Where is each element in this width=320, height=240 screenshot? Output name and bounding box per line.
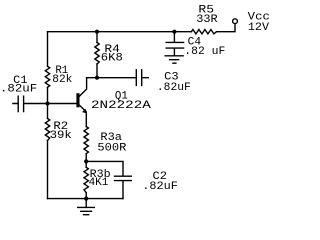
resistor R5: [191, 4, 218, 34]
wire bottom rail: [48, 198, 124, 200]
node C4 top: [172, 30, 176, 34]
wire base: [48, 103, 78, 105]
ground: [78, 199, 95, 215]
resistor R4: [95, 32, 123, 78]
svg-text:.82uF: .82uF: [0, 84, 37, 96]
wire top rail: [48, 31, 192, 33]
svg-text:.82uF: .82uF: [142, 181, 178, 193]
capacitor C4: [166, 32, 225, 58]
wire left rail middle segment: [47, 87, 49, 118]
svg-text:33R: 33R: [196, 14, 218, 26]
node ground junction: [84, 197, 88, 201]
ground C4: [165, 56, 183, 63]
svg-text:39k: 39k: [50, 130, 73, 142]
wire left rail lower segment: [47, 141, 49, 199]
capacitor C3: [136, 70, 190, 94]
capacitor C1: [0, 75, 47, 112]
svg-text:12V: 12V: [248, 22, 270, 34]
wire collector to C3: [87, 77, 137, 79]
node R4 top: [95, 30, 99, 34]
node base junction: [45, 101, 49, 105]
svg-text:6K8: 6K8: [101, 53, 123, 65]
resistor R3a: [84, 127, 127, 155]
svg-text:2N2222A: 2N2222A: [91, 100, 151, 112]
wire R3b bottom segment: [85, 193, 87, 199]
node emitter junction: [84, 159, 88, 163]
resistor R3b: [84, 167, 111, 192]
svg-text:4K1: 4K1: [89, 177, 109, 189]
resistor R2: [45, 119, 72, 143]
wire R5 to Vcc terminal: [217, 24, 236, 32]
capacitor C2: [86, 161, 178, 198]
wire emitter middle segment: [85, 154, 87, 168]
svg-text:.82 uF: .82 uF: [184, 46, 225, 58]
transistor Q1: [76, 78, 151, 127]
svg-text:82k: 82k: [52, 74, 72, 86]
svg-text:.82uF: .82uF: [157, 82, 191, 94]
svg-text:500R: 500R: [97, 142, 126, 154]
node Vcc terminal: [233, 12, 270, 34]
node collector junction: [95, 76, 99, 80]
wire left rail upper segment: [47, 32, 49, 67]
resistor R1: [45, 65, 72, 87]
